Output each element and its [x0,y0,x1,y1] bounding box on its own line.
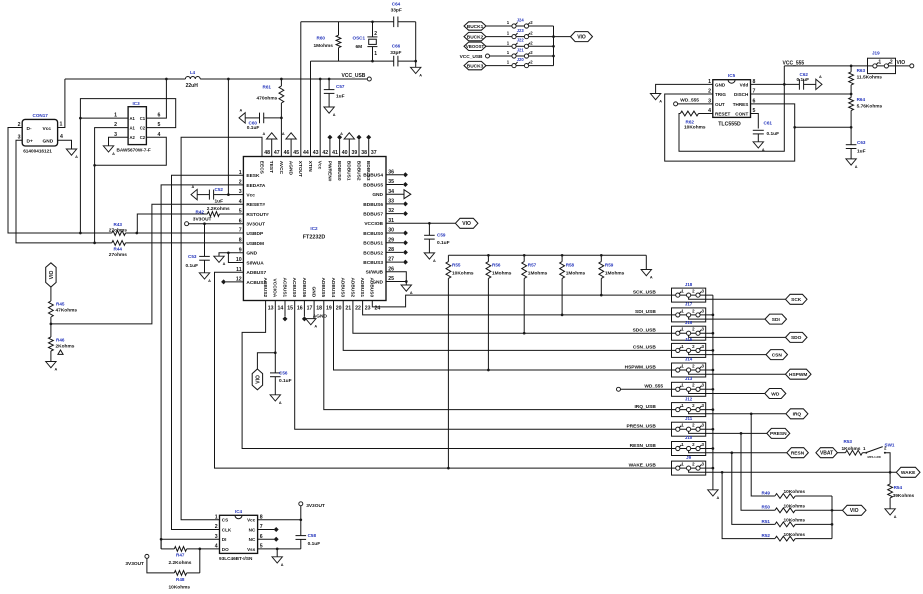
resistor R57 value [528,270,548,276]
capacitor C63 value [857,148,866,154]
wire Vcc trunk right [200,78,367,80]
svg-text:J16: J16 [685,320,693,325]
svg-text:RSTOUT#: RSTOUT# [246,212,269,218]
svg-text:D-: D- [27,126,32,132]
wire J18 pin3 to ground bus [0,0,1,1]
resistor R47 value [169,560,192,566]
wire J24 to VIO bus [529,25,554,27]
wire pin15 stub [283,301,288,322]
svg-text:CLK: CLK [222,527,232,532]
ground at pin25 [401,285,413,295]
jumper J20 ref [517,57,525,62]
svg-text:BDBUS0: BDBUS0 [336,161,342,181]
resistor R49 ref [762,490,771,495]
wire IC4 pin7 stub [258,527,279,532]
svg-text:17: 17 [307,305,313,311]
svg-text:R56: R56 [492,262,501,267]
svg-text:46: 46 [284,150,290,156]
svg-text:J17: J17 [685,302,693,307]
svg-text:A: A [281,563,284,567]
wire BDBUS0 pin40 stub [337,135,342,157]
capacitor C53 value [186,263,199,269]
jumper J23 pins [507,31,533,39]
svg-text:THRES: THRES [733,102,749,107]
svg-text:BDBUS3: BDBUS3 [365,161,371,181]
svg-text:R53: R53 [844,439,853,444]
capacitor C66 ref [392,43,401,48]
jumper J14 pins [676,363,705,372]
svg-text:0.1uF: 0.1uF [308,541,321,547]
jumper J20 pins [507,60,533,68]
wire J23 to VIO bus [529,36,554,38]
capacitor C61 ref [764,120,773,125]
junction WAKE-R55 [447,467,450,470]
resistor R48 ref [176,577,185,582]
port CSN [766,350,788,360]
jumper J11 ref [685,416,693,421]
timer IC5 body [713,80,751,118]
svg-text:A: A [314,325,317,329]
svg-text:GND: GND [715,82,726,87]
crystal pin 2 number [374,31,377,37]
wire AVCC pin46 [280,103,282,157]
svg-text:15: 15 [287,305,293,311]
svg-text:A: A [419,73,422,77]
capacitor C62 value [797,77,810,83]
svg-text:37: 37 [371,150,377,156]
svg-text:C64: C64 [392,2,401,7]
resistor R51 ref [762,519,771,524]
svg-text:6M: 6M [356,44,363,50]
junction portline-R50 [740,432,743,435]
wire jumper J11 pin2 to port PRESN [689,431,767,433]
wire J19 to VIO [889,65,910,67]
junction pin25 gnd [405,280,408,283]
capacitor C62 [799,79,815,90]
port SCK [786,294,808,304]
port VBAT [816,448,838,458]
svg-text:CSN: CSN [772,352,783,358]
svg-text:C57: C57 [336,84,345,89]
wire Vcc pin3 branch [228,79,243,195]
svg-text:47Kohms: 47Kohms [56,308,78,314]
wire pin22 ADBUS2 to SDO [353,301,672,334]
terminal WD_555 at jumper row [617,387,672,391]
wire jumper J15 pin2 to port CSN [689,353,766,355]
wire J20 to VIO bus [529,65,554,67]
jumper J17 body [672,308,713,322]
wire VIO pullup bus [831,496,833,539]
svg-text:A: A [717,496,720,500]
wire R50 drop [741,433,775,510]
svg-text:41: 41 [332,150,338,156]
wire 555 pin1 GND [656,84,713,93]
svg-text:TEST: TEST [268,161,274,173]
svg-text:DI: DI [222,537,227,542]
svg-text:VIO: VIO [577,34,586,40]
svg-text:8: 8 [239,238,242,244]
svg-text:0.1uF: 0.1uF [767,131,780,137]
wire XTOUT pin44 [300,22,302,157]
capacitor C52 value [215,199,224,205]
junction USBDP-R42 [135,232,138,235]
jumper J24 pins [507,20,533,28]
svg-text:AGND: AGND [288,161,294,176]
svg-text:Vcc: Vcc [317,161,323,170]
svg-text:WD_555: WD_555 [680,97,699,103]
ground above pin47 [263,132,277,139]
svg-text:VCCIOB: VCCIOB [364,221,383,227]
svg-text:VIO: VIO [462,221,471,227]
wire SW1 to WAKE line [885,453,890,473]
wire GND pin9 [219,253,243,256]
inductor L4 [185,77,200,79]
svg-text:A: A [55,368,58,372]
jumper J19 body [868,58,896,73]
jumper J14 ref [685,357,693,362]
timer IC5 pin labels [708,79,755,116]
resistor R48 [147,558,200,575]
svg-text:3V3OUT: 3V3OUT [125,561,144,567]
wire jumper J13 pin2 to port WD [689,391,765,393]
svg-text:IRQ_USB: IRQ_USB [634,404,656,410]
svg-text:CSN_USB: CSN_USB [633,345,656,351]
wire BUCK2 to jumper [486,36,512,38]
junction HSPWM-R56 [487,369,490,372]
wire D+ from CON17 pin3 [16,140,112,243]
resistor R63 ref [857,68,866,73]
svg-text:R63: R63 [857,68,866,73]
resistor R45 [49,301,54,317]
resistor R56 [486,255,491,370]
resistor R46 [49,337,54,351]
junction top bus BUCK2 [552,35,555,38]
wire IC3 pin1 to D- [80,117,128,119]
svg-text:2: 2 [374,31,377,37]
svg-text:2: 2 [890,60,893,66]
svg-text:L4: L4 [190,70,196,75]
port IRQ [786,409,808,419]
ground below C59 [424,253,436,263]
svg-text:HSPWM: HSPWM [789,372,807,378]
svg-text:1Mohms: 1Mohms [314,43,334,49]
capacitor C66 [394,56,398,67]
capacitor C61 value [767,131,780,137]
svg-text:A: A [112,152,115,156]
wire jumper ground bus [712,295,714,490]
junction rail-R58 [561,254,564,257]
svg-text:FT2232D: FT2232D [303,235,326,241]
svg-text:1uF: 1uF [857,148,866,154]
wire pin27 BCBUS3 stub [386,260,408,265]
svg-text:WAKE: WAKE [901,470,916,476]
svg-text:CONT: CONT [735,111,748,116]
port SDO [786,332,808,342]
svg-text:R59: R59 [605,262,614,267]
svg-text:R64: R64 [857,97,866,102]
svg-text:SCK_USB: SCK_USB [633,289,656,295]
svg-text:R49: R49 [762,490,771,495]
svg-text:R42: R42 [196,210,205,215]
resistor R63 value [857,74,883,80]
svg-text:C58: C58 [308,533,317,538]
eeprom IC4 ref [235,509,243,514]
terminal 3V3OUT at IC4 [299,502,325,520]
svg-text:0.1uF: 0.1uF [186,263,199,269]
resistor R59 value [605,270,625,276]
jumper J16 pins [676,327,705,336]
svg-text:4: 4 [60,134,63,140]
resistor R64 [849,94,854,127]
svg-text:C59: C59 [437,232,446,237]
svg-text:J14: J14 [685,357,693,362]
ground above pin45 [282,132,296,139]
capacitor C60 [245,113,281,124]
jumper J21 ref [517,47,525,52]
wire IC3 pin2 to D+ [95,128,129,243]
capacitor C56 ref [279,370,288,375]
svg-text:TLC555D: TLC555D [718,122,741,128]
wire pin30 BCBUS0 stub [386,231,408,236]
wire R53 to SW1 [862,452,865,454]
wire pin31 VCCIOB to VIO [386,222,455,224]
wire TEST pin47 stub [271,139,273,157]
svg-text:A: A [192,185,195,189]
svg-text:ADBUS6: ADBUS6 [301,277,307,297]
wire R45 to R46 [50,317,52,337]
wire xtal right vertical [415,22,417,68]
wire Vss gnd stub [276,549,278,557]
capacitor C64 [394,17,398,28]
wire 555 TRIG loop [665,94,795,161]
resistor R58 [560,255,565,315]
op-chip IC2 body [243,157,386,301]
port BUCK1 [464,22,486,30]
svg-text:R51: R51 [762,519,771,524]
svg-text:J12: J12 [685,396,693,401]
junction rail-R56 [487,254,490,257]
svg-text:BAW5670W-7-F: BAW5670W-7-F [117,148,151,153]
svg-text:4: 4 [239,199,242,205]
wire pin13 ACBUS2 to RESN [242,301,671,449]
svg-text:DO: DO [222,547,229,552]
jumper J18 ref [685,282,693,287]
resistor R61 ref [263,85,272,90]
resistor R55 value [452,270,474,276]
wire IC4 pin5 Vss [258,548,301,550]
wire Vcc pin42 [319,79,321,157]
port SDI [765,314,787,324]
svg-text:1Mohms: 1Mohms [566,270,586,276]
junction top bus VBOOST [552,45,555,48]
jumper J10 body [672,442,713,456]
capacitor C60 value [247,125,260,131]
IC3 part number [117,148,151,153]
svg-text:A: A [333,113,336,117]
svg-text:WD_555: WD_555 [644,384,663,390]
inductor L4 ref [190,70,196,75]
svg-text:3V3OUT: 3V3OUT [246,222,265,228]
wire IC4 pin6 stub [258,537,279,542]
timer IC5 part [718,122,741,128]
ground at 555 pin1 [650,94,662,104]
resistor R54 [888,472,893,498]
svg-text:GND: GND [311,287,317,298]
resistor R64 ref [857,97,866,102]
jumper J15 pins [676,344,705,353]
terminal VCC_USB top [460,54,512,60]
svg-text:10Kohms: 10Kohms [784,504,806,510]
svg-text:USBDP: USBDP [246,231,264,237]
svg-text:RESN: RESN [791,451,805,457]
svg-text:A2: A2 [130,135,136,140]
ground right of C62 [816,75,822,90]
resistor R45 ref [56,301,65,306]
resistor R60 ref [317,35,326,40]
svg-text:BDBUS2: BDBUS2 [355,161,361,181]
wire pin28 BCBUS2 stub [386,250,408,255]
svg-text:ADBUS3: ADBUS3 [340,277,346,297]
svg-text:3: 3 [215,534,218,540]
diode array IC3 body [128,107,146,145]
svg-text:27ohms: 27ohms [109,227,127,233]
wire pin32 BDBUS7 stub [386,211,408,216]
svg-text:J24: J24 [517,17,525,22]
jumper J13 body [672,382,713,396]
svg-text:ADBUS2: ADBUS2 [349,277,355,297]
svg-text:ADBUS7: ADBUS7 [246,270,266,276]
port VIO right of chip [455,218,478,228]
wire D+ to IC3 pin4 [95,137,167,165]
svg-text:VIO: VIO [255,375,261,384]
svg-text:J9: J9 [686,455,691,460]
jumper J12 body [672,403,713,417]
crystal OSC1 ref [353,35,366,40]
terminal VIO right edge [910,64,914,68]
svg-text:45: 45 [293,150,299,156]
port BUCK3 [464,61,486,69]
svg-text:SDO: SDO [791,335,802,341]
svg-text:ADBUS1: ADBUS1 [359,277,365,297]
wire EEDATA pin2 [161,185,243,549]
junction THRES node [793,126,796,129]
svg-text:GND: GND [246,251,257,257]
wire IC4 pin8 Vcc [258,519,301,521]
resistor R53 [845,450,862,455]
junction trunk-pin42 [319,78,322,81]
crystal OSC1 value [356,44,363,50]
wire VBAT to R53 [837,452,845,454]
svg-text:A: A [223,262,226,266]
resistor R44 [112,241,126,246]
junction bus row J17 [712,314,715,317]
svg-text:J23: J23 [517,28,525,33]
svg-text:R60: R60 [317,35,326,40]
resistor R52 value [784,532,806,538]
resistor R46 value [56,344,75,350]
svg-text:C66: C66 [392,43,401,48]
resistor R49 [775,494,795,499]
resistor R54 ref [894,485,903,490]
wire top VIO bus [553,26,555,66]
jumper J12 pins [676,403,705,412]
svg-text:C1: C1 [140,116,146,121]
svg-text:ADBUS0: ADBUS0 [369,277,375,297]
wire pin11 ADBUS7 to WAKE [215,272,672,468]
svg-text:20: 20 [336,305,342,311]
resistor R64 value [857,103,883,109]
resistor R51 value [784,518,806,524]
resistor R53 value [842,446,861,452]
svg-text:0.1uF: 0.1uF [797,77,810,83]
resistor R61 value [257,95,278,101]
svg-text:ACBUS0: ACBUS0 [291,277,297,297]
wire R49 to VIO bus [795,495,832,497]
junction bus R51 [831,523,834,526]
svg-text:1Mohms: 1Mohms [605,270,625,276]
svg-text:BCBUS2: BCBUS2 [363,250,383,256]
resistor R58 value [566,270,586,276]
svg-text:SDI_USB: SDI_USB [635,309,656,315]
wire pin29 BCBUS1 stub [386,240,408,245]
wire R51 to VIO bus [795,523,832,525]
terminal WD_555 at 555 [674,102,713,106]
wire pin10 SI/WUA tie [228,253,243,263]
capacitor C59 value [437,240,450,246]
svg-text:24: 24 [375,305,381,311]
svg-text:ADBUS4: ADBUS4 [330,277,336,297]
label VIO right edge [897,60,906,66]
jumper J17 pins [676,308,705,317]
svg-text:SI/WUA: SI/WUA [246,260,264,266]
wire BDBUS3 pin37 stub [366,135,371,157]
resistor R50 value [784,504,806,510]
resistor R43 [112,231,126,236]
jumper J17 ref [685,302,693,307]
svg-text:1Kohms: 1Kohms [842,446,861,452]
ground at rail end [641,270,653,280]
resistor R60 [336,22,341,61]
wire DI to R47 [160,539,162,549]
ground at CON17 pin4 [66,149,78,159]
svg-text:SCK: SCK [791,297,802,303]
wire VIO branch under chip [257,353,275,369]
jumper J18 pins [676,289,705,298]
svg-text:Vcc: Vcc [43,126,52,132]
connector CON17 pin numbers [18,122,63,141]
svg-text:A: A [819,75,822,79]
resistor R50 ref [762,505,771,510]
jumper J16 ref [685,320,693,325]
svg-text:SDO_USB: SDO_USB [633,328,657,334]
jumper J22 ref [517,38,525,43]
svg-text:ACBUS1: ACBUS1 [281,277,287,297]
wire R51 drop [732,453,775,525]
svg-text:0.1uF: 0.1uF [247,125,260,131]
svg-text:R52: R52 [762,533,771,538]
svg-text:VIO: VIO [897,60,906,66]
svg-text:19: 19 [326,305,332,311]
wire jumper J12 pin2 to port IRQ [689,412,786,414]
svg-text:R55: R55 [452,262,461,267]
crystal pin 1 number [374,51,377,57]
resistor R42 [137,212,243,233]
jumper J23 ref [517,28,525,33]
svg-text:Vdd: Vdd [740,82,749,87]
port VIO bottom right [843,505,867,515]
svg-text:93LC46BT-I/SN: 93LC46BT-I/SN [219,556,253,561]
resistor R47 [161,547,219,552]
